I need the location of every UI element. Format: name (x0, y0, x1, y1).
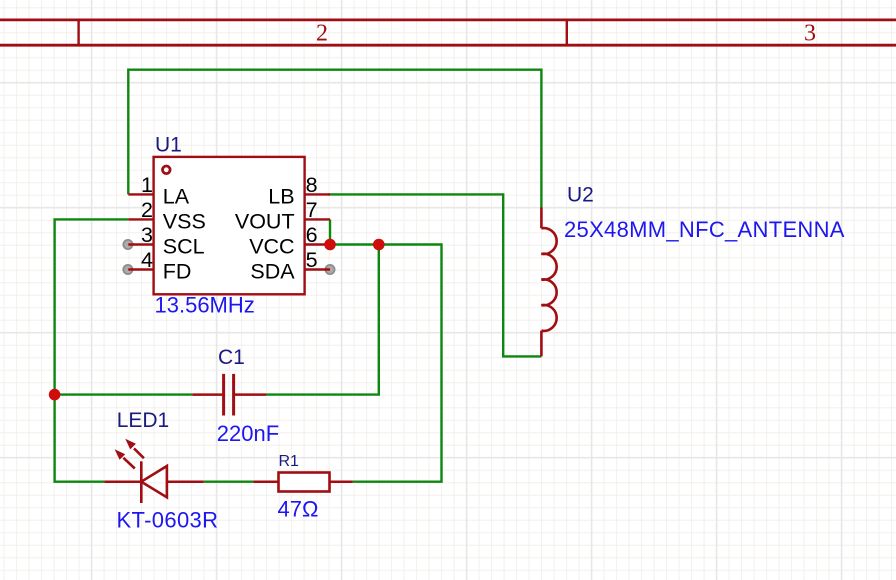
capacitor C1 (192, 374, 266, 416)
svg-text:3: 3 (141, 223, 153, 247)
inductor U2 (541, 208, 556, 357)
pin numbers (141, 173, 318, 272)
wire LED cathode to R1 left (204, 481, 254, 483)
svg-text:6: 6 (306, 223, 318, 247)
R1 body (279, 473, 330, 492)
pin names (163, 184, 295, 283)
wire VCC: junction right, down, to R1 right (330, 245, 442, 482)
pin 6 stub (305, 243, 331, 245)
svg-text:C1: C1 (218, 346, 245, 369)
svg-text:LA: LA (163, 184, 190, 208)
sheet frame top border (0, 20, 896, 45)
junction dot VSS at C1 row (49, 389, 61, 401)
svg-text:SCL: SCL (163, 234, 205, 258)
no-connect circle pin5 (325, 265, 334, 274)
svg-text:VCC: VCC (249, 234, 294, 258)
svg-text:R1: R1 (279, 453, 300, 470)
svg-text:1: 1 (141, 173, 153, 197)
no-connect circle pin3 (123, 240, 132, 249)
pin 3 stub (128, 243, 154, 245)
pin 2 stub (128, 218, 154, 220)
svg-text:VOUT: VOUT (235, 209, 295, 233)
svg-text:220nF: 220nF (217, 421, 279, 446)
svg-text:U1: U1 (155, 134, 182, 157)
svg-text:3: 3 (804, 21, 816, 47)
pin 7 stub (305, 218, 331, 220)
C1 left plate (222, 374, 225, 416)
svg-text:2: 2 (141, 198, 153, 222)
LED arrow 2 (123, 458, 134, 469)
svg-text:VSS: VSS (163, 209, 206, 233)
wire net VSS: pin2 left, down to LED row (55, 219, 129, 481)
svg-text:2: 2 (316, 21, 328, 47)
svg-text:5: 5 (306, 248, 318, 272)
svg-text:8: 8 (306, 173, 318, 197)
svg-text:FD: FD (163, 259, 192, 283)
svg-text:25X48MM_NFC_ANTENNA: 25X48MM_NFC_ANTENNA (564, 217, 845, 242)
pin 4 stub (128, 268, 154, 270)
LED leads (104, 480, 204, 483)
wire VCC branch down to C1 right (266, 245, 379, 395)
resistor R1 (253, 473, 352, 492)
wire net LB: pin8 right, down, to antenna bottom (328, 194, 541, 356)
pin 1 indicator circle (163, 166, 171, 174)
junction dot VCC branch (373, 239, 385, 251)
svg-text:SDA: SDA (250, 259, 295, 283)
svg-text:13.56MHz: 13.56MHz (155, 293, 255, 318)
LED triangle (141, 466, 167, 497)
LED arrow 1 (134, 448, 144, 458)
C1 right plate (232, 374, 235, 416)
IC U1 body (128, 157, 330, 294)
wire VOUT pin7 down to VCC junction (329, 219, 331, 244)
svg-text:4: 4 (141, 248, 153, 272)
svg-text:7: 7 (306, 198, 318, 222)
svg-text:LED1: LED1 (117, 409, 170, 432)
svg-text:U2: U2 (567, 184, 594, 207)
svg-text:KT-0603R: KT-0603R (117, 508, 219, 533)
wire net LA: pin1 up and over to antenna top (128, 70, 541, 208)
LED cathode bar (140, 461, 143, 503)
pin 5 stub (305, 268, 331, 270)
wire VSS branch to C1 left (55, 393, 193, 395)
svg-text:LB: LB (268, 184, 294, 208)
svg-text:47Ω: 47Ω (278, 497, 319, 522)
junction dot at pin6 (324, 239, 336, 251)
LED arrowheads (115, 439, 136, 460)
pin 1 stub (128, 193, 154, 195)
no-connect circle pin4 (123, 265, 132, 274)
LED1 symbol (104, 448, 204, 503)
pin 8 stub (305, 193, 331, 195)
